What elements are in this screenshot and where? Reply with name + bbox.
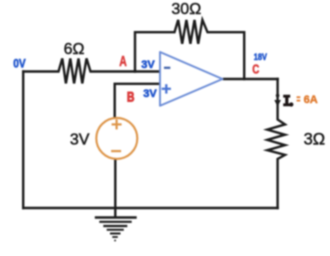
svg-text:18V: 18V xyxy=(254,51,267,62)
svg-text:6Ω: 6Ω xyxy=(64,41,85,58)
svg-text:B: B xyxy=(127,89,135,105)
svg-text:6A: 6A xyxy=(304,94,318,106)
svg-text:3V: 3V xyxy=(70,132,90,149)
svg-text:3Ω: 3Ω xyxy=(304,131,326,149)
svg-text:3V: 3V xyxy=(143,88,157,100)
svg-text:30Ω: 30Ω xyxy=(171,1,201,18)
svg-text:C: C xyxy=(252,63,259,76)
svg-text:0V: 0V xyxy=(13,58,26,71)
svg-text:3V: 3V xyxy=(141,59,155,71)
svg-text:A: A xyxy=(119,52,127,69)
